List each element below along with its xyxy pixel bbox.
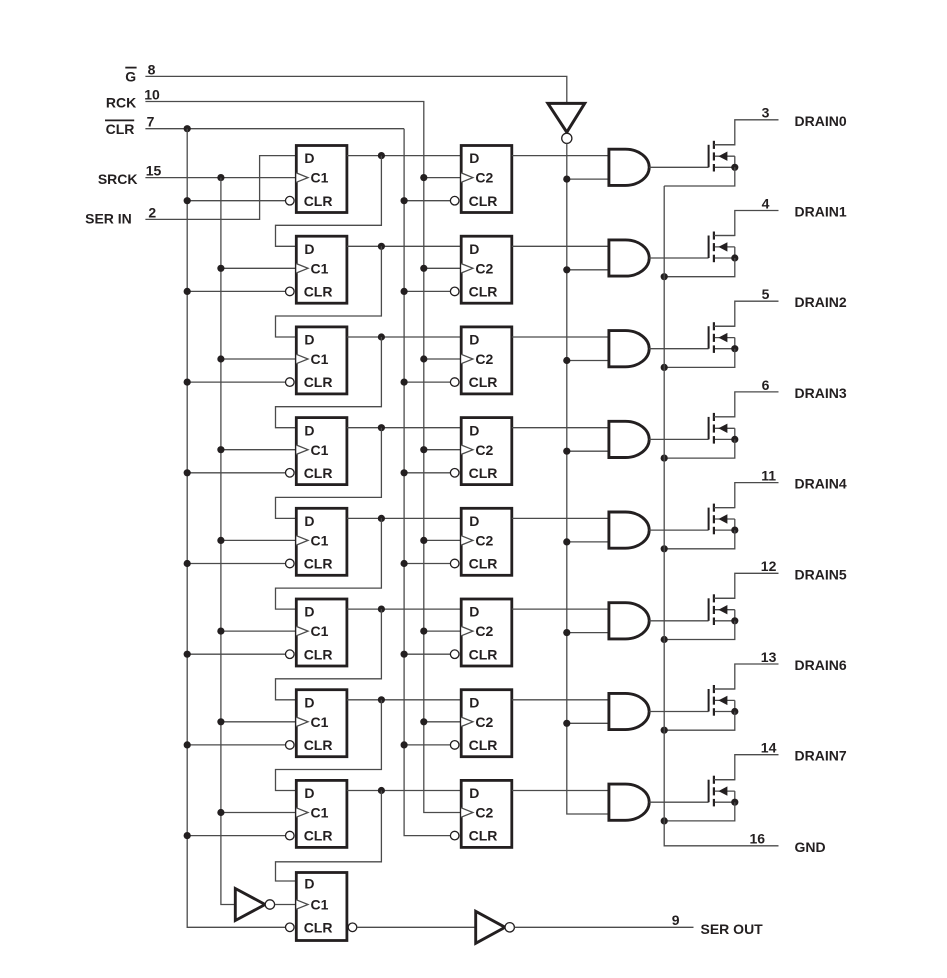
svg-text:13: 13 xyxy=(761,649,777,665)
svg-text:9: 9 xyxy=(672,912,680,928)
transistor Q3 (power DMOS, DRAIN3) xyxy=(709,413,735,444)
pin 2 SER IN input label xyxy=(85,204,156,226)
junction: G bus row 0 xyxy=(563,176,570,183)
flip-flop FF5 (shift register stage 4, C1) xyxy=(286,508,347,575)
junction: CLR-bar split to column-1 bus xyxy=(184,125,191,132)
wire: AND gate A1 output to transistor Q1 gate xyxy=(649,257,708,259)
svg-text:DRAIN4: DRAIN4 xyxy=(795,476,847,492)
svg-text:DRAIN5: DRAIN5 xyxy=(795,566,847,582)
latch L2 (storage register stage 2, C2) xyxy=(450,327,511,394)
transistor Q0 (power DMOS, DRAIN0) xyxy=(709,141,735,172)
junction: CLR-bar column-2 bus row 5 xyxy=(401,651,408,658)
junction: CLR-bar column-1 bus row 4 xyxy=(184,560,191,567)
svg-text:CLR: CLR xyxy=(106,121,135,137)
wire: Q3 source return to GND bus xyxy=(664,439,735,458)
wire: SER IN from pin 2 to FF1 D input xyxy=(145,156,296,220)
junction: SRCK bus row 7 xyxy=(217,809,224,816)
junction: GND bus row 6 xyxy=(661,727,668,734)
wire: G bus branch to AND gate A5 xyxy=(567,632,609,634)
wire: AND gate A7 output to transistor Q7 gate xyxy=(649,801,708,803)
junction: SRCK bus row 2 xyxy=(217,355,224,362)
junction: RCK bus row 6 xyxy=(420,718,427,725)
junction: CLR-bar column-1 bus row 0 xyxy=(184,197,191,204)
svg-text:C2: C2 xyxy=(475,351,493,367)
svg-text:C2: C2 xyxy=(475,533,493,549)
junction: SRCK bus row 4 xyxy=(217,537,224,544)
wire: RCK net from pin 10 down to latch L7 clock xyxy=(145,102,461,813)
wire: CLR-bar branch to latch L3 xyxy=(404,472,452,474)
wire: FF1 Q feed to FF2 D input xyxy=(276,156,382,247)
inverter U3 (SER OUT inverter) xyxy=(476,911,515,943)
AND gate A5 (output enable) xyxy=(609,603,649,639)
latch L7 (storage register stage 7, C2) xyxy=(450,780,511,847)
AND gate A4 (output enable) xyxy=(609,512,649,548)
flip-flop FF8 (shift register stage 7, C1) xyxy=(286,780,347,847)
junction: Q7 source node xyxy=(731,799,738,806)
junction: G bus row 2 xyxy=(563,357,570,364)
svg-text:CLR: CLR xyxy=(469,556,498,572)
wire: latch L3 Q output to AND gate A3 xyxy=(512,427,609,429)
pin 9 SER OUT label xyxy=(672,912,763,937)
svg-text:CLR: CLR xyxy=(469,465,498,481)
node: FF9 inverted output bubble xyxy=(348,923,357,932)
wire: FF3 Q feed to FF4 D input xyxy=(276,337,382,428)
svg-text:C2: C2 xyxy=(475,805,493,821)
svg-text:CLR: CLR xyxy=(304,828,333,844)
svg-text:C2: C2 xyxy=(475,714,493,730)
transistor Q5 (power DMOS, DRAIN5) xyxy=(709,594,735,625)
wire: FF7 Q feed to FF8 D input xyxy=(276,700,382,791)
wire: latch L5 Q output to AND gate A5 xyxy=(512,608,609,610)
AND gate A1 (output enable) xyxy=(609,240,649,276)
svg-text:CLR: CLR xyxy=(304,284,333,300)
wire: G bus from inverter U1 down to AND gate A7 xyxy=(567,143,609,814)
wire: Q4 source return to GND bus xyxy=(664,530,735,549)
wire: Q6 drain to DRAIN6 pin line xyxy=(714,664,779,689)
transistor Q2 (power DMOS, DRAIN2) xyxy=(709,322,735,353)
wire: Q5 drain to DRAIN5 pin line xyxy=(714,573,779,598)
pin 13 DRAIN6 label xyxy=(761,649,847,673)
wire: SRCK branch to FF8 clock xyxy=(221,812,296,814)
junction: G bus row 1 xyxy=(563,266,570,273)
pin 8 G-bar input label xyxy=(125,62,155,85)
wire: FF2 Q feed to FF3 D input xyxy=(276,246,382,337)
svg-text:D: D xyxy=(469,513,479,529)
flip-flop FF4 (shift register stage 3, C1) xyxy=(286,418,347,485)
wire: SRCK branch to FF5 clock xyxy=(221,539,296,541)
svg-text:D: D xyxy=(304,513,314,529)
svg-text:14: 14 xyxy=(761,740,777,756)
svg-text:D: D xyxy=(469,422,479,438)
wire: FF3 Q output to latch L2 D input xyxy=(347,336,461,338)
wire: CLR-bar branch to FF1 xyxy=(187,200,287,202)
junction: CLR-bar column-2 bus row 3 xyxy=(401,469,408,476)
svg-text:D: D xyxy=(469,241,479,257)
svg-text:C2: C2 xyxy=(475,442,493,458)
wire: RCK branch to latch L6 clock xyxy=(424,721,461,723)
wire: Q0 source return to GND bus xyxy=(664,167,735,186)
junction: GND bus row 2 xyxy=(661,364,668,371)
junction: FF1 Q node xyxy=(378,152,385,159)
junction: GND bus row 5 xyxy=(661,636,668,643)
wire: Q0 drain to DRAIN0 pin line xyxy=(714,120,779,145)
pin 11 DRAIN4 label xyxy=(761,468,847,492)
junction: Q2 source node xyxy=(731,345,738,352)
wire: Q7 drain to DRAIN7 pin line xyxy=(714,755,779,780)
flip-flop FF7 (shift register stage 6, C1) xyxy=(286,690,347,757)
wire: AND gate A0 output to transistor Q0 gate xyxy=(649,166,708,168)
flip-flop FF9 (serial output stage, C1) xyxy=(286,873,347,941)
junction: CLR-bar column-2 bus row 6 xyxy=(401,741,408,748)
latch L3 (storage register stage 3, C2) xyxy=(450,418,511,485)
wire: CLR-bar branch to latch L0 xyxy=(404,200,452,202)
wire: Q7 source return to GND bus xyxy=(664,802,735,821)
svg-text:C1: C1 xyxy=(311,714,329,730)
wire: latch L1 Q output to AND gate A1 xyxy=(512,245,609,247)
pin 3 DRAIN0 label xyxy=(762,105,847,129)
AND gate A3 (output enable) xyxy=(609,421,649,457)
wire: SRCK bus down to inverter U2 xyxy=(221,178,235,905)
junction: CLR-bar column-2 bus row 4 xyxy=(401,560,408,567)
inverter U2 (SRCK inverter for FF9 clock) xyxy=(235,889,274,921)
junction: CLR-bar column-1 bus row 1 xyxy=(184,288,191,295)
wire: AND gate A2 output to transistor Q2 gate xyxy=(649,348,708,350)
latch L4 (storage register stage 4, C2) xyxy=(450,508,511,575)
svg-text:CLR: CLR xyxy=(304,465,333,481)
wire: SER OUT line to pin 9 xyxy=(514,926,693,928)
svg-text:D: D xyxy=(304,785,314,801)
wire: CLR-bar branch to FF7 xyxy=(187,744,287,746)
junction: FF4 Q node xyxy=(378,424,385,431)
AND gate A6 (output enable) xyxy=(609,693,649,729)
wire: CLR-bar bus column 2 down to latch L7 xyxy=(404,129,452,836)
svg-text:D: D xyxy=(304,604,314,620)
wire: FF8 Q feed to FF9 D input xyxy=(276,791,382,882)
wire: CLR-bar branch to latch L2 xyxy=(404,381,452,383)
junction: RCK bus row 0 xyxy=(420,174,427,181)
svg-text:RCK: RCK xyxy=(106,95,136,111)
wire: FF6 Q feed to FF7 D input xyxy=(276,609,382,700)
svg-text:CLR: CLR xyxy=(469,193,498,209)
svg-text:SER IN: SER IN xyxy=(85,211,132,227)
svg-text:CLR: CLR xyxy=(304,737,333,753)
junction: G bus row 6 xyxy=(563,720,570,727)
junction: CLR-bar column-1 bus row 5 xyxy=(184,651,191,658)
junction: GND bus row 1 xyxy=(661,273,668,280)
junction: FF7 Q node xyxy=(378,696,385,703)
junction: CLR-bar column-2 bus row 2 xyxy=(401,379,408,386)
junction: CLR-bar column-2 bus row 0 xyxy=(401,197,408,204)
junction: FF5 Q node xyxy=(378,515,385,522)
junction: Q1 source node xyxy=(731,254,738,261)
wire: G-bar net from pin 8 to inverter U1 xyxy=(145,76,566,103)
wire: Q2 source return to GND bus xyxy=(664,349,735,368)
svg-text:CLR: CLR xyxy=(469,646,498,662)
AND gate A2 (output enable) xyxy=(609,331,649,367)
junction: Q6 source node xyxy=(731,708,738,715)
svg-text:DRAIN1: DRAIN1 xyxy=(795,204,847,220)
svg-text:D: D xyxy=(304,241,314,257)
svg-text:D: D xyxy=(304,422,314,438)
junction: G bus row 5 xyxy=(563,629,570,636)
flip-flop FF1 (shift register stage 0, C1) xyxy=(286,146,347,213)
svg-text:4: 4 xyxy=(762,195,770,211)
wire: AND gate A4 output to transistor Q4 gate xyxy=(649,529,708,531)
flip-flop FF6 (shift register stage 5, C1) xyxy=(286,599,347,666)
pin 12 DRAIN5 label xyxy=(761,558,847,582)
wire: AND gate A6 output to transistor Q6 gate xyxy=(649,711,708,713)
svg-text:D: D xyxy=(469,785,479,801)
svg-text:C1: C1 xyxy=(311,533,329,549)
wire: G bus branch to AND gate A2 xyxy=(567,360,609,362)
svg-text:DRAIN7: DRAIN7 xyxy=(795,748,847,764)
junction: CLR-bar column-1 bus row 6 xyxy=(184,741,191,748)
wire: CLR-bar branch to FF8 xyxy=(187,835,287,837)
svg-text:6: 6 xyxy=(762,377,770,393)
svg-text:G: G xyxy=(125,69,136,85)
svg-text:CLR: CLR xyxy=(469,828,498,844)
wire: Q3 drain to DRAIN3 pin line xyxy=(714,392,779,417)
wire: G bus branch to AND gate A0 xyxy=(567,178,609,180)
wire: FF6 Q output to latch L5 D input xyxy=(347,608,461,610)
pin 14 DRAIN7 label xyxy=(761,740,847,764)
junction: SRCK bus row 1 xyxy=(217,265,224,272)
wire: SRCK branch to FF6 clock xyxy=(221,630,296,632)
junction: Q5 source node xyxy=(731,617,738,624)
svg-text:15: 15 xyxy=(146,163,162,179)
svg-text:2: 2 xyxy=(148,204,156,220)
svg-text:10: 10 xyxy=(144,87,160,103)
wire: CLR-bar branch to latch L1 xyxy=(404,290,452,292)
pin 7 CLR-bar input label xyxy=(105,114,155,137)
wire: CLR-bar branch to latch L6 xyxy=(404,744,452,746)
flip-flop FF2 (shift register stage 1, C1) xyxy=(286,236,347,303)
junction: CLR-bar column-2 bus row 1 xyxy=(401,288,408,295)
junction: FF2 Q node xyxy=(378,243,385,250)
pin 10 RCK input label xyxy=(106,87,160,111)
svg-text:C2: C2 xyxy=(475,260,493,276)
junction: RCK bus row 2 xyxy=(420,355,427,362)
wire: latch L0 Q output to AND gate A0 xyxy=(512,155,609,157)
latch L6 (storage register stage 6, C2) xyxy=(450,690,511,757)
svg-text:CLR: CLR xyxy=(304,646,333,662)
svg-text:DRAIN2: DRAIN2 xyxy=(795,294,847,310)
wire: FF5 Q output to latch L4 D input xyxy=(347,517,461,519)
wire: latch L2 Q output to AND gate A2 xyxy=(512,336,609,338)
svg-text:CLR: CLR xyxy=(304,919,333,935)
wire: SRCK branch to FF2 clock xyxy=(221,267,296,269)
svg-text:C1: C1 xyxy=(311,442,329,458)
wire: FF8 Q output to latch L7 D input xyxy=(347,790,461,792)
wire: latch L4 Q output to AND gate A4 xyxy=(512,517,609,519)
wire: Q2 drain to DRAIN2 pin line xyxy=(714,301,779,326)
wire: SRCK branch to FF3 clock xyxy=(221,358,296,360)
svg-text:3: 3 xyxy=(762,105,770,121)
svg-text:7: 7 xyxy=(147,114,155,130)
junction: CLR-bar column-1 bus row 2 xyxy=(184,379,191,386)
junction: FF3 Q node xyxy=(378,333,385,340)
pin 4 DRAIN1 label xyxy=(762,195,847,219)
svg-text:C1: C1 xyxy=(311,351,329,367)
svg-text:D: D xyxy=(304,150,314,166)
svg-text:D: D xyxy=(304,694,314,710)
wire: RCK branch to latch L4 clock xyxy=(424,539,461,541)
svg-text:SRCK: SRCK xyxy=(98,171,138,187)
svg-text:DRAIN6: DRAIN6 xyxy=(795,657,847,673)
junction: RCK bus row 5 xyxy=(420,628,427,635)
wire: CLR-bar branch to FF4 xyxy=(187,472,287,474)
inverter U1 (G-bar enable inverter) xyxy=(548,103,585,143)
wire: RCK branch to latch L1 clock xyxy=(424,267,461,269)
junction: SRCK bus row 5 xyxy=(217,628,224,635)
wire: G bus branch to AND gate A6 xyxy=(567,722,609,724)
svg-text:CLR: CLR xyxy=(304,374,333,390)
wire: FF2 Q output to latch L1 D input xyxy=(347,245,461,247)
wire: SRCK branch to FF4 clock xyxy=(221,449,296,451)
wire: CLR-bar branch to FF3 xyxy=(187,381,287,383)
wire: latch L7 Q output to AND gate A7 xyxy=(512,790,609,792)
transistor Q7 (power DMOS, DRAIN7) xyxy=(709,776,735,807)
junction: Q0 source node xyxy=(731,164,738,171)
wire: CLR-bar branch to latch L5 xyxy=(404,653,452,655)
svg-text:CLR: CLR xyxy=(304,193,333,209)
wire: FF1 Q output to latch L0 D input xyxy=(347,155,461,157)
wire: Q4 drain to DRAIN4 pin line xyxy=(714,483,779,508)
latch L0 (storage register stage 0, C2) xyxy=(450,146,511,213)
svg-text:C1: C1 xyxy=(311,623,329,639)
svg-text:C2: C2 xyxy=(475,623,493,639)
junction: Q4 source node xyxy=(731,527,738,534)
svg-text:5: 5 xyxy=(762,286,770,302)
svg-text:CLR: CLR xyxy=(304,556,333,572)
svg-text:CLR: CLR xyxy=(469,284,498,300)
latch L5 (storage register stage 5, C2) xyxy=(450,599,511,666)
wire: CLR-bar bus column 1 down to FF9 xyxy=(187,129,287,928)
wire: CLR-bar branch to latch L4 xyxy=(404,563,452,565)
svg-text:D: D xyxy=(469,604,479,620)
svg-text:GND: GND xyxy=(795,839,826,855)
wire: FF9 output to inverter U3 xyxy=(357,926,476,928)
transistor Q6 (power DMOS, DRAIN6) xyxy=(709,685,735,716)
wire: latch L6 Q output to AND gate A6 xyxy=(512,699,609,701)
svg-text:D: D xyxy=(469,150,479,166)
svg-text:8: 8 xyxy=(148,62,156,78)
latch L1 (storage register stage 1, C2) xyxy=(450,236,511,303)
svg-text:D: D xyxy=(304,876,314,892)
svg-text:DRAIN0: DRAIN0 xyxy=(795,113,847,129)
svg-text:D: D xyxy=(304,332,314,348)
junction: RCK bus row 3 xyxy=(420,446,427,453)
svg-text:SER OUT: SER OUT xyxy=(701,921,764,937)
svg-text:DRAIN3: DRAIN3 xyxy=(795,385,847,401)
AND gate A0 (output enable) xyxy=(609,149,649,185)
pin 6 DRAIN3 label xyxy=(762,377,847,401)
junction: RCK bus row 1 xyxy=(420,265,427,272)
svg-text:CLR: CLR xyxy=(469,374,498,390)
svg-text:11: 11 xyxy=(761,468,776,484)
junction: SRCK split to bus xyxy=(217,174,224,181)
junction: CLR-bar column-1 bus row 3 xyxy=(184,469,191,476)
wire: GND bus down to pin 16 line xyxy=(664,186,778,846)
AND gate A7 (output enable) xyxy=(609,784,649,820)
wire: CLR-bar branch to FF2 xyxy=(187,290,287,292)
svg-text:C1: C1 xyxy=(311,260,329,276)
wire: Q1 source return to GND bus xyxy=(664,258,735,277)
wire: CLR-bar branch to FF5 xyxy=(187,563,287,565)
svg-text:C1: C1 xyxy=(311,805,329,821)
wire: SRCK input line from pin 15 to FF1 clock xyxy=(145,177,296,179)
wire: FF4 Q feed to FF5 D input xyxy=(276,428,382,519)
wire: Q6 source return to GND bus xyxy=(664,712,735,731)
wire: Q5 source return to GND bus xyxy=(664,621,735,640)
pin 5 DRAIN2 label xyxy=(762,286,847,310)
wire: Q1 drain to DRAIN1 pin line xyxy=(714,211,779,236)
junction: SRCK bus row 3 xyxy=(217,446,224,453)
pin 15 SRCK input label xyxy=(98,163,162,187)
junction: RCK bus row 4 xyxy=(420,537,427,544)
svg-text:C1: C1 xyxy=(311,897,329,913)
wire: FF5 Q feed to FF6 D input xyxy=(276,518,382,609)
svg-text:C1: C1 xyxy=(311,170,329,186)
transistor Q1 (power DMOS, DRAIN1) xyxy=(709,232,735,263)
wire: G bus branch to AND gate A3 xyxy=(567,450,609,452)
junction: GND bus row 4 xyxy=(661,545,668,552)
junction: CLR-bar column-1 bus row 7 xyxy=(184,832,191,839)
svg-text:C2: C2 xyxy=(475,170,493,186)
wire: SRCK branch to FF7 clock xyxy=(221,721,296,723)
wire: FF7 Q output to latch L6 D input xyxy=(347,699,461,701)
transistor Q4 (power DMOS, DRAIN4) xyxy=(709,504,735,535)
wire: RCK branch to latch L0 clock xyxy=(424,177,461,179)
svg-text:D: D xyxy=(469,694,479,710)
svg-text:16: 16 xyxy=(750,831,766,847)
junction: G bus row 3 xyxy=(563,448,570,455)
svg-text:12: 12 xyxy=(761,558,777,574)
wire: FF4 Q output to latch L3 D input xyxy=(347,427,461,429)
junction: G bus row 4 xyxy=(563,538,570,545)
wire: G bus branch to AND gate A4 xyxy=(567,541,609,543)
wire: CLR-bar branch to FF6 xyxy=(187,653,287,655)
junction: FF8 Q node xyxy=(378,787,385,794)
flip-flop FF3 (shift register stage 2, C1) xyxy=(286,327,347,394)
wire: RCK branch to latch L3 clock xyxy=(424,449,461,451)
junction: GND bus row 3 xyxy=(661,455,668,462)
wire: CLR-bar input line from pin 7 xyxy=(145,128,404,130)
junction: FF6 Q node xyxy=(378,606,385,613)
wire: RCK branch to latch L2 clock xyxy=(424,358,461,360)
wire: inverter U2 output to FF9 clock xyxy=(275,904,297,906)
wire: RCK branch to latch L5 clock xyxy=(424,630,461,632)
wire: AND gate A5 output to transistor Q5 gate xyxy=(649,620,708,622)
wire: AND gate A3 output to transistor Q3 gate xyxy=(649,438,708,440)
svg-text:D: D xyxy=(469,332,479,348)
junction: Q3 source node xyxy=(731,436,738,443)
junction: GND bus row 7 xyxy=(661,817,668,824)
svg-text:CLR: CLR xyxy=(469,737,498,753)
pin 16 GND label xyxy=(750,831,826,855)
wire: G bus branch to AND gate A1 xyxy=(567,269,609,271)
junction: SRCK bus row 6 xyxy=(217,718,224,725)
